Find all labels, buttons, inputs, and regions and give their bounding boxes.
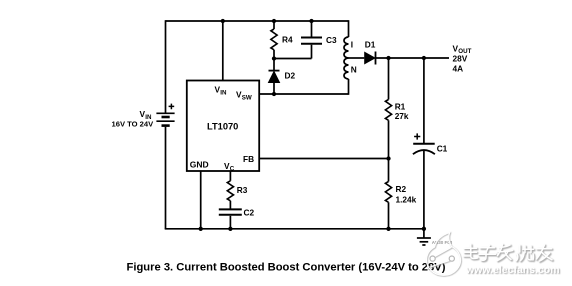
wire C3 bottom	[311, 45, 313, 59]
node R4 top	[272, 19, 276, 23]
svg-text:GND: GND	[190, 160, 209, 170]
wire output rail	[376, 57, 450, 59]
svg-text:IN: IN	[220, 90, 227, 97]
watermark text www.elecfans.com	[465, 264, 561, 277]
node R2 bottom	[386, 227, 390, 231]
node junction dots	[199, 19, 426, 231]
svg-text:1.24k: 1.24k	[396, 194, 417, 204]
node D2 VSW	[272, 92, 276, 96]
wire C1 bottom lead	[423, 151, 425, 229]
svg-text:SW: SW	[242, 95, 252, 102]
wire VIN pin drop	[222, 21, 224, 81]
wire C1 top lead	[423, 58, 425, 143]
svg-text:FB: FB	[243, 154, 254, 164]
resistor R4	[271, 29, 277, 50]
node output C1	[422, 56, 426, 60]
svg-text:N: N	[351, 65, 357, 75]
svg-text:C: C	[230, 166, 235, 173]
node C2 bottom	[228, 227, 232, 231]
svg-text:D1: D1	[365, 40, 376, 50]
wire FB	[259, 158, 389, 160]
capacitor C2	[219, 209, 242, 214]
resistor R3	[227, 181, 233, 201]
diode D1	[365, 52, 376, 65]
wire bottom rail	[165, 228, 424, 230]
wire left rail lower (battery to bottom rail)	[165, 127, 167, 229]
svg-text:www.elecfans.com: www.elecfans.com	[465, 264, 560, 276]
svg-text:C1: C1	[437, 143, 448, 153]
wire RC snubber bottom connector	[273, 58, 311, 60]
wire D2 top lead	[273, 59, 275, 71]
capacitor C3	[301, 38, 322, 44]
svg-text:27k: 27k	[395, 111, 409, 121]
wire VC pin stub	[229, 171, 231, 181]
svg-text:R4: R4	[282, 35, 293, 45]
node snubber / R4 bottom	[272, 56, 276, 60]
ground symbol	[417, 229, 431, 245]
wire C3 branch top	[311, 21, 313, 37]
svg-text:28V: 28V	[453, 53, 468, 63]
battery B1 VIN 16V TO 24V	[156, 104, 174, 126]
svg-text:C3: C3	[326, 35, 337, 45]
resistor R2	[385, 182, 391, 203]
svg-text:16V TO 24V: 16V TO 24V	[112, 120, 155, 129]
svg-text:R2: R2	[396, 184, 407, 194]
resistor R1	[385, 100, 391, 121]
wire R4 branch top	[273, 21, 275, 29]
node GND bottom	[199, 227, 203, 231]
wire R1 branch	[388, 58, 390, 100]
diode D2	[269, 71, 280, 83]
node C1 ground	[422, 227, 426, 231]
wire top rail	[166, 20, 349, 22]
wire GND pin stub	[200, 171, 202, 229]
svg-text:Figure 3. Current Boosted Boos: Figure 3. Current Boosted Boost Converte…	[127, 261, 446, 273]
node VIN pin / top rail	[221, 19, 225, 23]
node output R1	[386, 56, 390, 60]
watermark logo elecfans	[426, 232, 461, 276]
svg-text:C2: C2	[244, 208, 255, 218]
wire D2 bottom lead	[273, 83, 275, 95]
wire R4 bottom	[273, 50, 275, 59]
op-amp U1 LT1070 box	[187, 81, 259, 172]
svg-text:R3: R3	[237, 185, 248, 195]
watermark text elecfans chinese	[464, 245, 553, 263]
capacitor C1	[413, 133, 435, 154]
wire tap to D1	[349, 57, 365, 59]
svg-text:I: I	[351, 40, 353, 50]
node FB divider	[386, 156, 390, 160]
wire C2 bottom lead	[229, 216, 231, 229]
transformer T1 tapped inductor	[344, 20, 349, 95]
svg-text:4A: 4A	[453, 63, 464, 73]
wire left rail upper (to battery)	[165, 20, 167, 112]
wire R2 bottom lead	[388, 202, 390, 229]
wire VSW to transformer	[259, 93, 349, 95]
wire R2 top lead	[388, 159, 390, 182]
wire R1 bottom to FB node	[388, 120, 390, 158]
node C3 top	[309, 19, 313, 23]
wire R3 to C2	[229, 201, 231, 209]
svg-text:LT1070: LT1070	[207, 122, 238, 132]
svg-text:D2: D2	[285, 71, 296, 81]
